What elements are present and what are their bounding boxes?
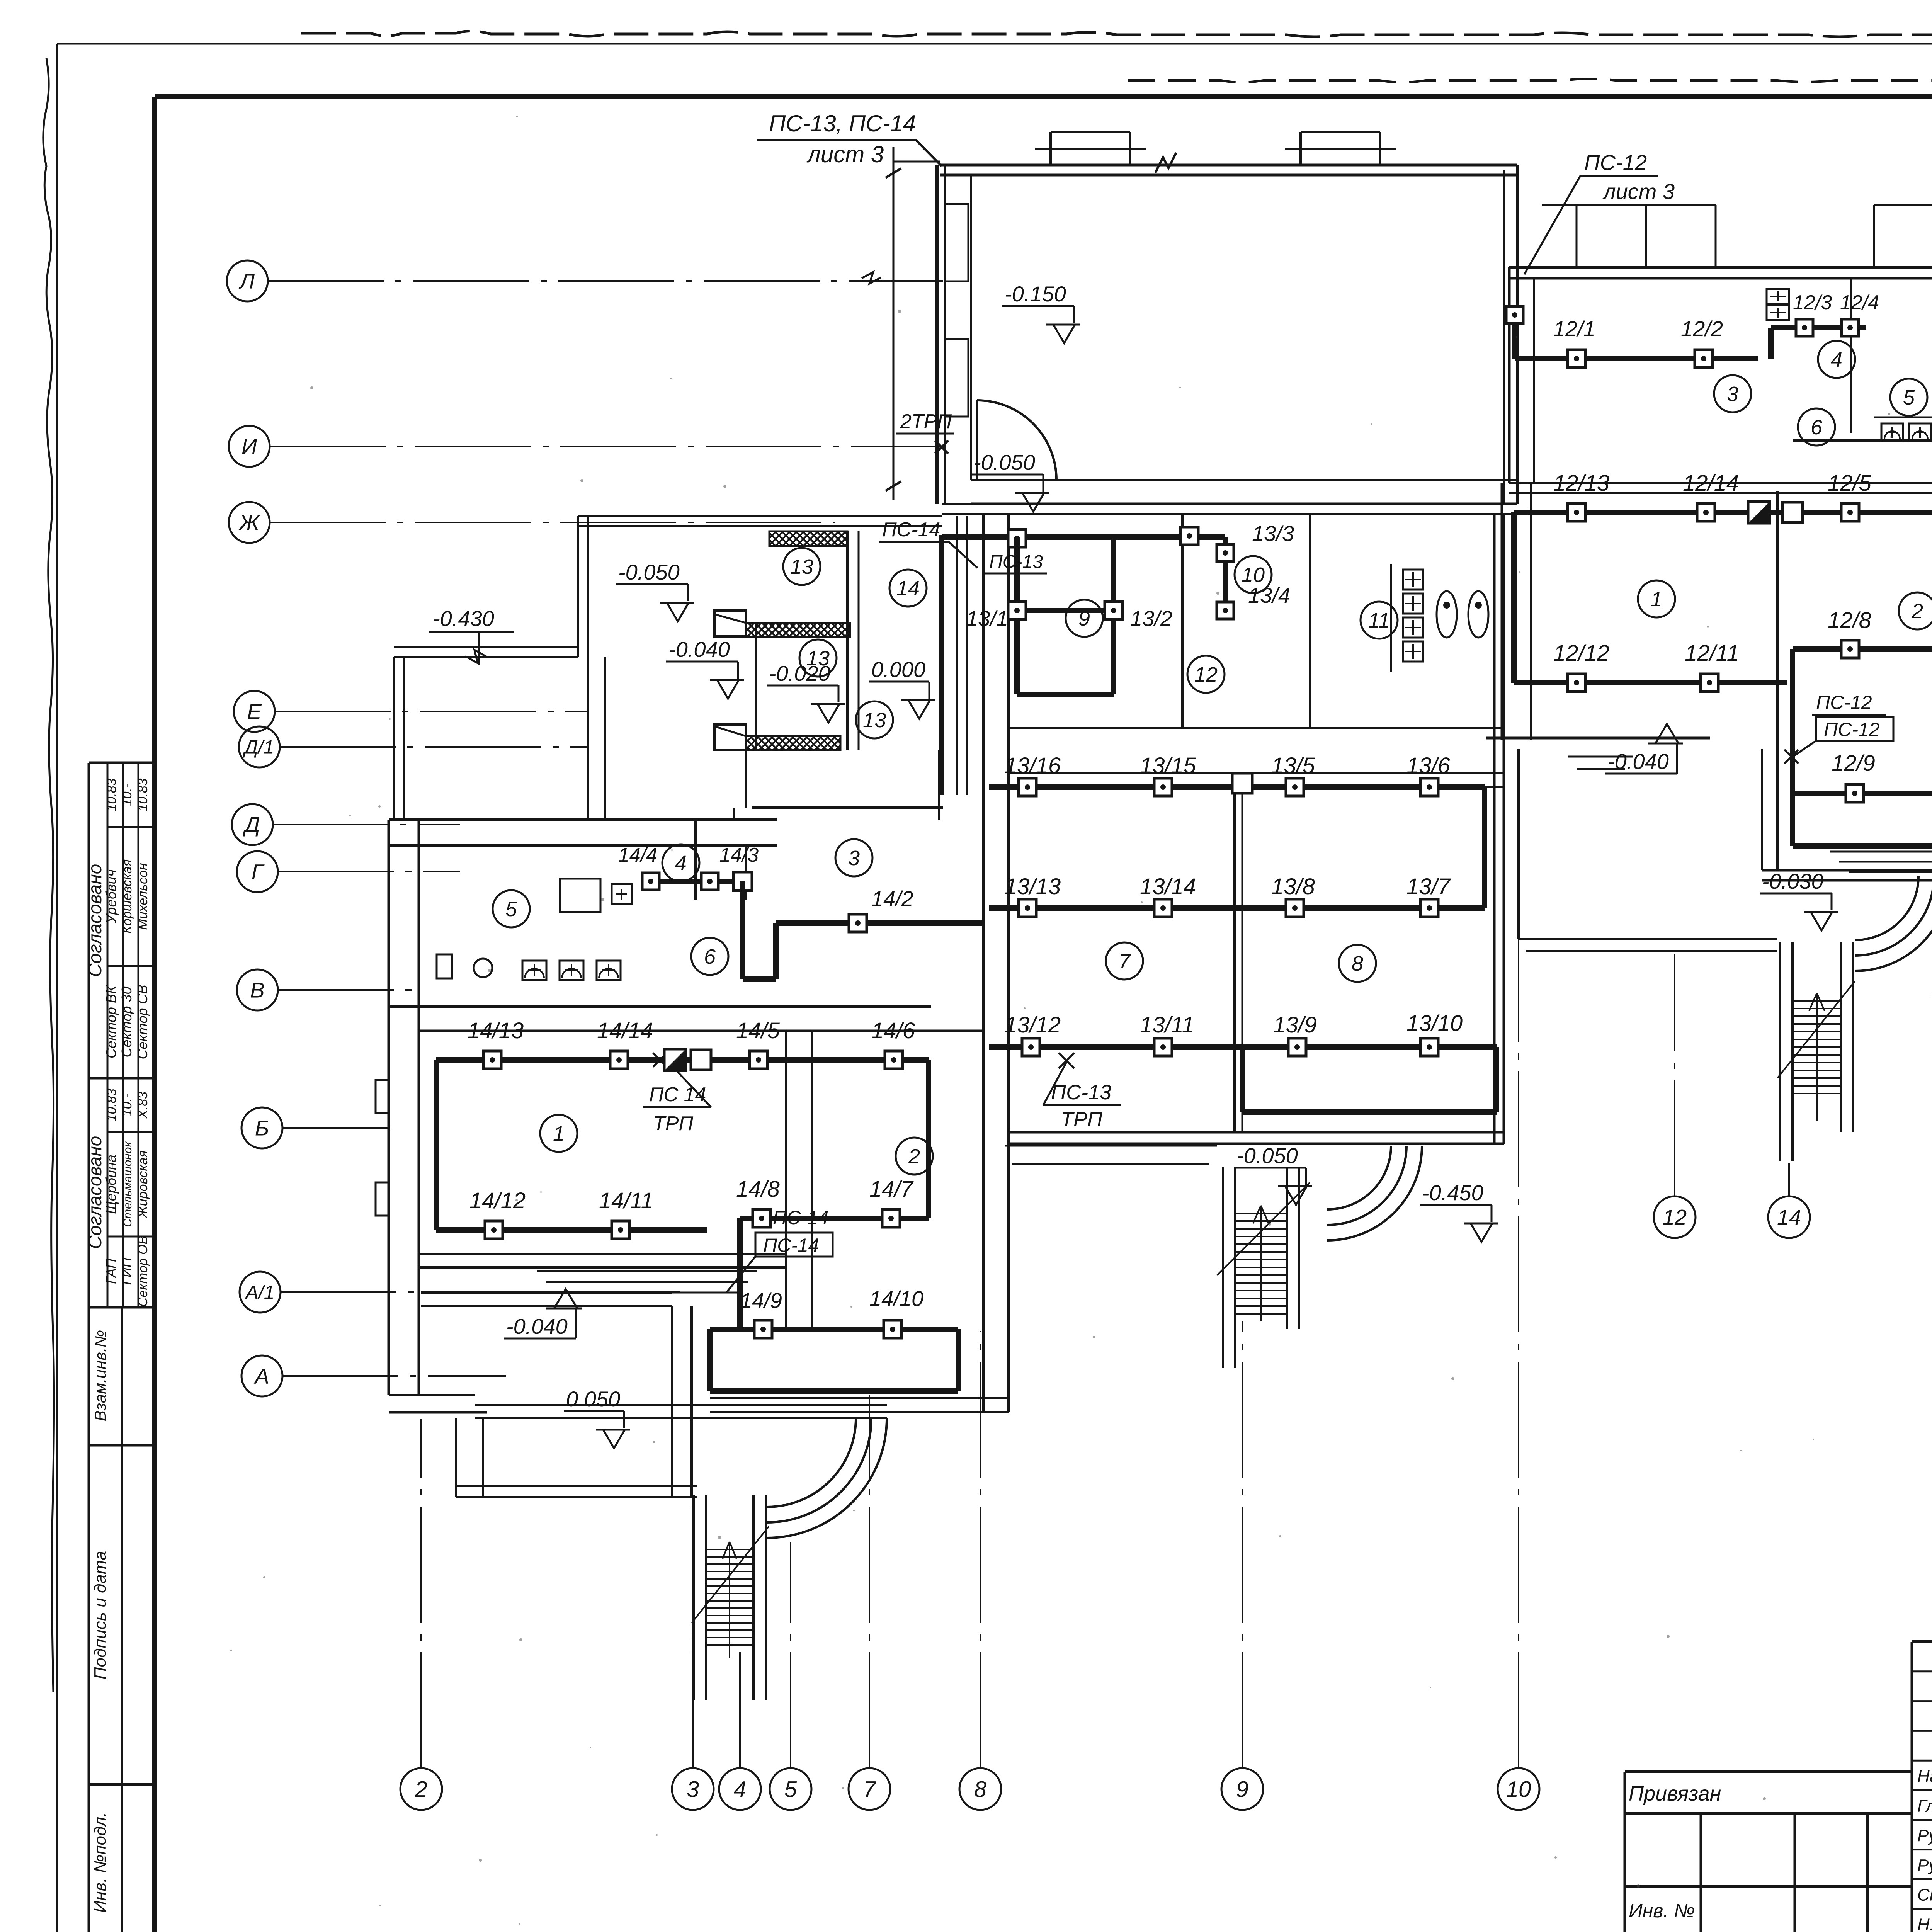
svg-text:Коршевская: Коршевская [120,859,134,934]
svg-text:12/14: 12/14 [1683,471,1739,496]
svg-text:Уребвич: Уребвич [103,869,119,924]
svg-text:Г: Г [252,860,265,884]
svg-text:-0.150: -0.150 [1005,282,1066,306]
svg-text:3: 3 [687,1777,699,1802]
svg-text:14: 14 [1777,1205,1801,1230]
svg-text:10: 10 [1506,1777,1531,1802]
svg-text:Подпись и дата: Подпись и дата [91,1551,110,1680]
svg-text:8: 8 [974,1777,986,1802]
svg-text:2: 2 [908,1145,920,1168]
svg-text:ПС-12: ПС-12 [1584,150,1647,175]
svg-text:12/12: 12/12 [1553,641,1609,666]
svg-text:ПС-13, ПС-14: ПС-13, ПС-14 [769,111,916,136]
svg-text:Рук. сек.: Рук. сек. [1917,1826,1932,1845]
svg-text:Гл.сп.отд.: Гл.сп.отд. [1917,1796,1932,1815]
svg-text:14/14: 14/14 [597,1018,653,1043]
svg-text:лист 3: лист 3 [1602,179,1675,204]
svg-text:14/11: 14/11 [599,1188,653,1213]
svg-text:ТРП: ТРП [653,1112,693,1135]
svg-text:4: 4 [1831,348,1842,371]
svg-text:Щербина: Щербина [103,1155,119,1214]
svg-text:Л: Л [239,269,255,293]
svg-text:-0.040: -0.040 [1607,749,1669,774]
svg-text:5: 5 [1903,386,1915,409]
svg-text:-0.430: -0.430 [433,606,494,631]
svg-text:10.83: 10.83 [104,778,119,811]
svg-text:13/8: 13/8 [1271,874,1315,899]
svg-text:12/1: 12/1 [1553,316,1595,341]
svg-text:Нач. отд.: Нач. отд. [1917,1767,1932,1786]
svg-text:13/2: 13/2 [1130,606,1172,631]
svg-text:ГАП: ГАП [103,1258,119,1284]
svg-text:13/15: 13/15 [1140,753,1196,778]
svg-text:14/4: 14/4 [618,844,657,866]
svg-text:Д: Д [242,813,260,837]
svg-text:12: 12 [1194,663,1218,686]
svg-text:-0.050: -0.050 [618,560,680,584]
svg-text:Стельмашонок: Стельмашонок [121,1141,134,1227]
svg-text:10.83: 10.83 [136,778,150,811]
svg-text:0.050: 0.050 [566,1387,620,1411]
svg-text:-0.020: -0.020 [769,661,830,685]
svg-text:14/10: 14/10 [869,1286,923,1311]
svg-text:7: 7 [1119,950,1131,973]
svg-text:ПС-14: ПС-14 [882,519,940,541]
svg-text:ПС 14: ПС 14 [649,1083,706,1106]
svg-text:Д/1: Д/1 [243,736,274,758]
svg-text:11: 11 [1368,609,1390,632]
svg-text:Согласовано: Согласовано [85,1136,105,1249]
svg-text:3: 3 [848,847,860,870]
svg-text:3: 3 [1727,383,1738,406]
svg-text:Согласовано: Согласовано [85,864,105,977]
svg-text:ПС-12: ПС-12 [1824,719,1880,740]
svg-text:6: 6 [1811,416,1823,439]
svg-text:ПС-13: ПС-13 [989,552,1043,572]
svg-text:13/5: 13/5 [1271,753,1315,778]
svg-text:14: 14 [896,577,920,600]
svg-text:14/7: 14/7 [869,1177,914,1202]
svg-text:2: 2 [1911,600,1923,623]
svg-text:13/10: 13/10 [1406,1011,1463,1036]
svg-text:10.-: 10.- [120,784,134,806]
svg-text:Инв. №подл.: Инв. №подл. [91,1812,110,1913]
svg-text:14/5: 14/5 [736,1018,780,1043]
svg-text:-0.040: -0.040 [668,637,730,662]
svg-text:Б: Б [255,1116,269,1140]
svg-text:Сектор СВ: Сектор СВ [134,985,150,1059]
svg-text:13/14: 13/14 [1140,874,1196,899]
svg-text:14/6: 14/6 [871,1018,915,1043]
svg-text:12/11: 12/11 [1685,641,1739,666]
svg-text:В: В [250,978,264,1002]
svg-text:13: 13 [863,709,886,732]
svg-text:13: 13 [790,555,813,578]
svg-text:Сектор ВК: Сектор ВК [103,985,119,1058]
svg-text:13/11: 13/11 [1140,1012,1194,1037]
svg-text:-0.050: -0.050 [1236,1143,1298,1168]
svg-text:Сектор 30: Сектор 30 [119,986,134,1057]
svg-text:Привязан: Привязан [1629,1782,1721,1805]
svg-text:12/9: 12/9 [1832,751,1875,776]
svg-text:12/5: 12/5 [1828,471,1872,496]
svg-text:10.-: 10.- [120,1094,134,1117]
svg-text:12/4: 12/4 [1840,291,1879,314]
svg-text:Н. контр: Н. контр [1917,1915,1932,1932]
svg-text:Рук. гр.: Рук. гр. [1917,1856,1932,1875]
svg-text:12: 12 [1663,1205,1687,1230]
svg-text:Ст. инж.: Ст. инж. [1917,1886,1932,1905]
svg-text:12/8: 12/8 [1828,608,1871,633]
svg-text:13/13: 13/13 [1005,874,1061,899]
svg-text:12/3: 12/3 [1793,291,1832,314]
svg-text:ПС-14: ПС-14 [763,1235,819,1256]
svg-text:-0.030: -0.030 [1762,869,1823,893]
svg-text:14/2: 14/2 [871,886,913,911]
svg-text:-0.450: -0.450 [1422,1180,1483,1205]
svg-text:14/9: 14/9 [740,1288,782,1313]
svg-text:13/12: 13/12 [1005,1012,1061,1037]
svg-text:Жировская: Жировская [136,1150,150,1219]
svg-text:Михельсон: Михельсон [136,863,150,930]
svg-text:0.000: 0.000 [871,657,925,682]
svg-text:14/13: 14/13 [468,1018,524,1043]
svg-text:1: 1 [553,1122,565,1145]
svg-text:13/7: 13/7 [1406,874,1451,899]
svg-text:ПС-13: ПС-13 [1051,1081,1111,1104]
svg-text:14/3: 14/3 [719,844,759,866]
svg-text:Ж: Ж [238,510,260,535]
svg-text:8: 8 [1352,952,1363,975]
svg-text:1: 1 [1651,588,1662,611]
svg-text:А: А [253,1364,269,1388]
svg-text:лист 3: лист 3 [806,141,884,167]
svg-text:Е: Е [247,699,262,724]
svg-text:13/4: 13/4 [1248,583,1290,607]
svg-text:-0.050: -0.050 [974,450,1035,474]
svg-text:12/13: 12/13 [1553,471,1609,496]
svg-text:ПС-12: ПС-12 [1816,692,1872,713]
svg-text:10.83: 10.83 [104,1088,119,1121]
svg-text:13/9: 13/9 [1273,1012,1317,1037]
svg-text:Инв. №: Инв. № [1629,1900,1695,1922]
svg-text:13/1: 13/1 [966,606,1008,631]
svg-text:4: 4 [734,1777,746,1802]
svg-text:9: 9 [1078,607,1090,630]
svg-text:Взам.инв.№: Взам.инв.№ [91,1330,109,1421]
svg-text:2: 2 [415,1777,427,1802]
svg-text:14/8: 14/8 [736,1177,780,1202]
svg-text:9: 9 [1236,1777,1248,1802]
svg-text:Х.83: Х.83 [136,1092,150,1119]
svg-text:5: 5 [784,1777,797,1802]
svg-text:2ТРП: 2ТРП [900,410,952,433]
svg-text:ПС-14: ПС-14 [773,1207,829,1228]
svg-text:Сектор ОВ: Сектор ОВ [136,1236,150,1307]
svg-text:5: 5 [505,898,517,921]
svg-text:13/16: 13/16 [1005,753,1061,778]
svg-text:ГИП: ГИП [119,1257,134,1285]
svg-text:6: 6 [704,945,716,968]
svg-text:И: И [241,434,257,459]
svg-text:13/3: 13/3 [1252,521,1294,546]
svg-text:13/6: 13/6 [1406,753,1451,778]
svg-text:7: 7 [863,1777,877,1802]
svg-text:-0.040: -0.040 [506,1314,568,1338]
svg-text:12/2: 12/2 [1681,316,1723,341]
svg-text:А/1: А/1 [244,1282,274,1303]
svg-text:10: 10 [1242,563,1265,587]
svg-text:4: 4 [675,852,687,875]
svg-text:ТРП: ТРП [1061,1108,1103,1131]
